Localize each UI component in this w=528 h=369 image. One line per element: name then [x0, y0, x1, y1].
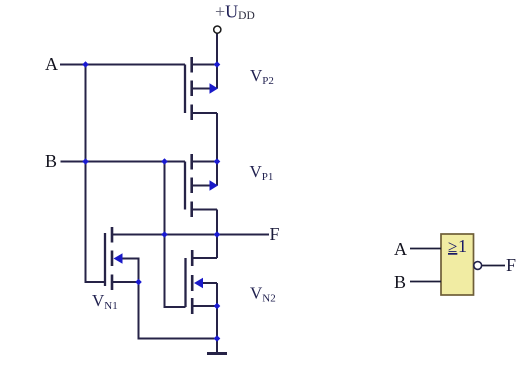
svg-text:1: 1 — [458, 236, 467, 256]
svg-text:B: B — [45, 151, 57, 171]
svg-text:≥: ≥ — [448, 237, 457, 256]
svg-text:F: F — [506, 255, 516, 275]
svg-text:A: A — [394, 239, 407, 259]
svg-text:F: F — [270, 224, 280, 244]
svg-text:A: A — [45, 54, 58, 74]
svg-text:B: B — [394, 272, 406, 292]
